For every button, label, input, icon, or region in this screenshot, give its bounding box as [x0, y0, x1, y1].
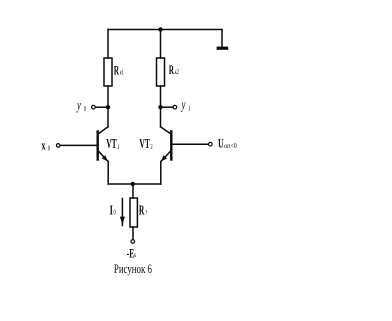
transistor VT1	[98, 127, 109, 162]
svg-text:x: x	[42, 138, 46, 153]
svg-text:R: R	[139, 203, 145, 218]
node y1 junction	[158, 105, 162, 109]
svg-text:VT: VT	[139, 137, 150, 152]
transistor VT2	[161, 127, 172, 162]
svg-text:1: 1	[188, 104, 190, 112]
svg-text:VT: VT	[106, 137, 117, 152]
node emitter junction	[131, 182, 135, 186]
svg-text:0: 0	[113, 210, 115, 217]
terminal y0	[92, 105, 96, 109]
svg-text:R: R	[114, 65, 120, 79]
wire Re to -Ek	[132, 227, 134, 240]
wire y0 stub	[95, 106, 108, 108]
terminal x0	[56, 144, 60, 148]
svg-text:Рисунок 6: Рисунок 6	[114, 261, 152, 276]
wire Rk1 to VT1 collector	[107, 86, 109, 127]
label -Eк	[127, 248, 137, 261]
wire y1 stub	[161, 106, 174, 108]
label Rк2	[169, 64, 179, 78]
svg-text:0: 0	[84, 105, 86, 113]
resistor Rк2	[157, 58, 165, 86]
label VT1	[106, 137, 119, 152]
label x0	[42, 138, 51, 153]
wire left branch to Rk1	[107, 30, 109, 59]
svg-text:-E: -E	[127, 248, 135, 261]
ground	[217, 47, 229, 50]
node junction top rail	[158, 27, 162, 31]
label Uоп&lt;0	[218, 137, 237, 152]
wire bottom rail	[108, 183, 161, 185]
svg-text:к2: к2	[175, 69, 179, 76]
svg-text:0: 0	[48, 144, 50, 152]
label Rэ	[139, 203, 148, 218]
wire ground drop	[221, 30, 223, 48]
svg-text:к: к	[134, 252, 136, 259]
svg-text:y: y	[181, 97, 186, 113]
svg-text:R: R	[169, 64, 175, 78]
wire VT2 emitter down	[160, 162, 162, 184]
svg-text:э: э	[146, 209, 148, 216]
svg-text:оп<0: оп<0	[224, 142, 237, 150]
wire Rk2 branch to VT2 collector	[160, 30, 162, 59]
label VT2	[139, 137, 152, 152]
wire rail to Re	[132, 184, 134, 198]
label I0	[110, 204, 116, 218]
wire top supply rail	[108, 29, 222, 31]
terminal y1	[173, 105, 177, 109]
svg-text:y: y	[76, 97, 81, 113]
resistor Rэ	[130, 198, 137, 227]
wire VT1 emitter down	[107, 162, 109, 184]
terminal -Ek	[131, 240, 135, 244]
wire base Uop	[173, 143, 209, 145]
terminal Uop	[209, 142, 213, 146]
node y0 junction	[106, 105, 110, 109]
label Rк1	[114, 65, 124, 79]
label y1	[181, 97, 191, 113]
current arrow I0	[120, 199, 125, 226]
svg-text:1: 1	[117, 144, 119, 151]
svg-text:I: I	[110, 204, 113, 218]
wire base x0	[60, 144, 97, 146]
svg-text:к1: к1	[120, 69, 124, 76]
wire Rk2 to elbow	[160, 86, 162, 127]
svg-text:U: U	[218, 137, 224, 152]
svg-text:2: 2	[150, 144, 152, 151]
resistor Rк1	[104, 58, 112, 86]
label y0	[76, 97, 86, 113]
